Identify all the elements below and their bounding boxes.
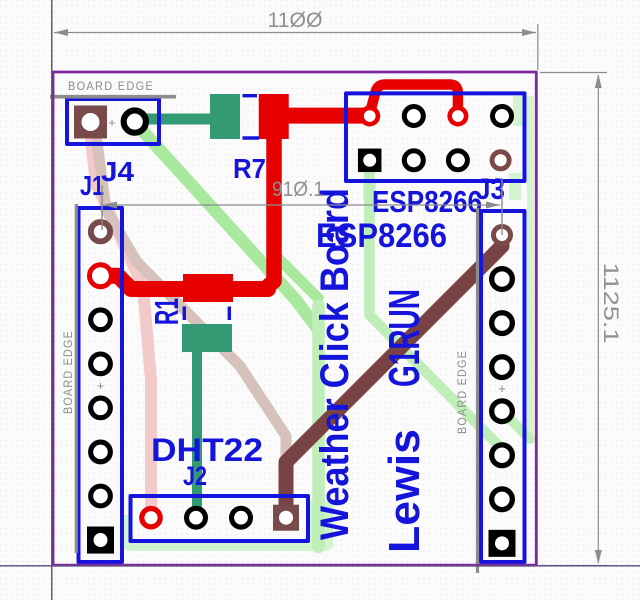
- dimension 910.1 extension stub left: [101, 185, 103, 230]
- connector J2 pad 1: [142, 509, 160, 527]
- svg-text:G1RUN: G1RUN: [380, 289, 429, 387]
- svg-text:Weather Click Board: Weather Click Board: [313, 188, 357, 540]
- board edge indicator bar left: [75, 204, 78, 553]
- wire pale-green branch from under red trace to zone junction: [272, 252, 318, 298]
- resistor R1 pad 1: [183, 274, 233, 302]
- svg-text:1125.1: 1125.1: [599, 263, 622, 344]
- svg-text:BOARD EDGE: BOARD EDGE: [63, 330, 75, 414]
- crosshair horizontal: [0, 565, 640, 567]
- resistor R1 courtyard dash right: [228, 307, 231, 321]
- zone patch below ESP8266 pad5: [363, 183, 376, 200]
- svg-text:11ØØ: 11ØØ: [268, 9, 323, 32]
- connector J1 pad 6: [91, 442, 111, 462]
- svg-text:+: +: [498, 381, 506, 396]
- connector J1 pad 3: [91, 310, 111, 330]
- dimension 1100 line: [54, 32, 536, 34]
- connector J4 pad 1: [74, 106, 107, 139]
- resistor R7 courtyard dash bottom: [243, 136, 260, 139]
- module ESP8266 pad 3: [450, 108, 466, 124]
- board edge indicator bar right: [476, 208, 479, 573]
- wire red J1 pad2 to R1 pad1: [101, 276, 269, 289]
- zone fill GND around J2: [122, 500, 333, 551]
- wire tan J4 pad1 to J2 pad4: [97, 142, 286, 505]
- svg-text:R1: R1: [148, 298, 185, 325]
- dimension 1100 extension line right: [537, 24, 539, 70]
- crosshair vertical: [51, 0, 53, 600]
- module ESP8266 outline: [346, 93, 525, 181]
- svg-text:DHT22: DHT22: [151, 432, 263, 468]
- dimension 910.1 extension stub right: [501, 178, 503, 235]
- resistor R7 courtyard dash top: [243, 94, 258, 97]
- wire pale-green zone junction to bottom zone: [312, 306, 325, 547]
- dimension 1100 arrow left: [54, 29, 68, 36]
- wire teal J4 pad2 to R7 pad1: [135, 114, 218, 125]
- svg-text:91Ø.1: 91Ø.1: [272, 178, 324, 201]
- wire pale-green J4 pad2 to zone junction: [140, 128, 319, 330]
- module ESP8266 pad 8: [492, 152, 509, 169]
- svg-text:+: +: [97, 378, 105, 393]
- resistor R7 pad 1: [210, 94, 240, 139]
- dimension 1100 extension line left: [51, 24, 53, 70]
- connector J1 outline: [79, 208, 123, 562]
- dimension 1125.1 extension line bottom: [540, 565, 607, 567]
- svg-text:ESP8266: ESP8266: [372, 184, 482, 219]
- connector J3 pad 4: [492, 357, 513, 378]
- dimension 1125.1 line: [597, 75, 599, 563]
- module ESP8266 pad 5: [358, 149, 382, 173]
- board edge indicator bar top: [50, 95, 176, 99]
- svg-text:BOARD EDGE: BOARD EDGE: [457, 350, 469, 434]
- wire pale-green ESP8266 pad5 to J3 pad6: [370, 163, 503, 449]
- resistor R7 pad 2: [259, 94, 289, 139]
- connector J3 pad 7: [492, 489, 513, 510]
- module ESP8266 pad 6: [404, 151, 423, 170]
- connector J1 pad 4: [91, 354, 111, 374]
- connector J1 pad 1: [91, 222, 110, 241]
- connector J3 pad 3: [492, 313, 513, 334]
- connector J3 pad 6: [492, 445, 513, 466]
- connector J3 pad 5: [492, 401, 513, 422]
- svg-text:R7: R7: [233, 153, 266, 184]
- module ESP8266 pad 2: [404, 107, 423, 126]
- connector J3 pad 8: [489, 530, 516, 557]
- svg-text:J2: J2: [183, 461, 207, 491]
- svg-text:BOARD EDGE: BOARD EDGE: [68, 81, 154, 93]
- connector J3 outline: [481, 211, 525, 562]
- wire teal R1 pad2 to J2 pad2: [192, 340, 202, 514]
- svg-text:J4: J4: [101, 156, 134, 187]
- dimension 910.1 line: [103, 204, 500, 206]
- resistor R1 pad 2: [182, 324, 232, 352]
- connector J2 pad 4: [273, 505, 299, 531]
- wire red ESP8266 pad1 to pad3 (top jumper): [370, 85, 458, 115]
- connector J2 pad 3: [232, 508, 251, 527]
- connector J3 pad 1: [494, 227, 511, 244]
- module ESP8266 pad 4: [493, 107, 512, 126]
- connector J1 pad 7: [91, 486, 111, 506]
- zone strip right of J3: [527, 96, 534, 440]
- module ESP8266 pad 7: [448, 151, 467, 170]
- resistor R1 courtyard dash left: [183, 307, 186, 321]
- wire brown J2 pad4 to J3 pad1: [286, 237, 502, 514]
- connector J4 pad 2: [124, 111, 146, 133]
- zone patch right of ESP8266: [513, 96, 523, 126]
- connector J3 pad 2: [492, 269, 513, 290]
- dimension 1125.1 arrow down: [595, 550, 602, 564]
- wire red R7 pad2 to ESP8266 pad1: [286, 108, 370, 124]
- connector J4 outline: [67, 99, 159, 144]
- module ESP8266 pad 1: [362, 108, 378, 124]
- svg-text:+: +: [108, 115, 116, 130]
- svg-text:J1: J1: [80, 170, 104, 201]
- connector J1 pad 8: [87, 527, 114, 554]
- dimension 1125.1 extension line top: [540, 72, 607, 74]
- wire red R1 pad1 to R7 pad2: [266, 135, 274, 288]
- dimension 910.1 arrow left: [103, 202, 117, 209]
- dimension 1125.1 arrow up: [595, 74, 602, 88]
- wire pink J4 pad1 to J2 pad1: [91, 140, 151, 506]
- board edge outline: [53, 72, 536, 565]
- dimension 910.1 arrow right: [486, 202, 500, 209]
- dimension 1100 arrow right: [522, 29, 536, 36]
- connector J2 outline: [131, 496, 309, 541]
- connector J1 pad 2: [90, 265, 112, 287]
- connector J2 pad 2: [187, 508, 206, 527]
- wire pale-green J3 pad5 to right strip: [502, 411, 530, 439]
- connector J1 pad 5: [91, 398, 111, 418]
- svg-text:Lewis: Lewis: [380, 429, 429, 553]
